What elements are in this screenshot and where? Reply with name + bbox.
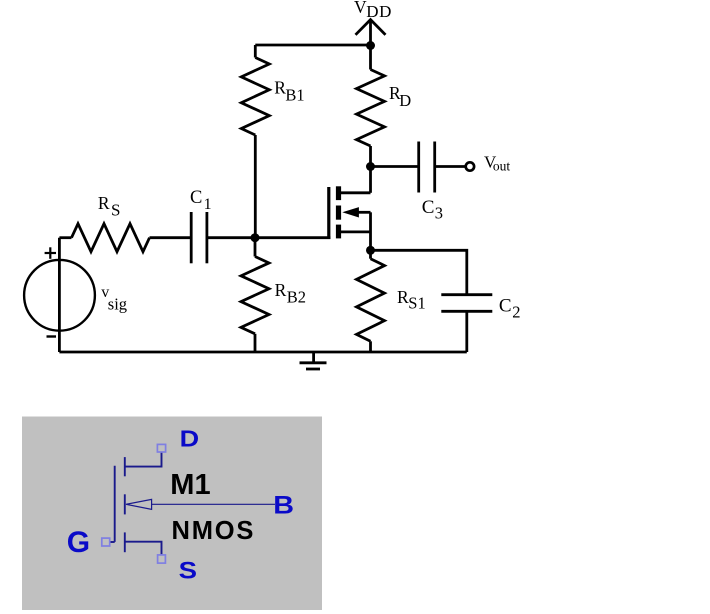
drain lead: [341, 191, 371, 194]
svg-text:NMOS: NMOS: [172, 517, 256, 545]
svg-text:S1: S1: [408, 294, 425, 313]
ground: [300, 352, 327, 369]
svg-text:C: C: [190, 188, 202, 208]
symbol M1 source lead: [125, 542, 162, 555]
svg-text:3: 3: [435, 204, 443, 223]
node gate junction dot: [251, 233, 260, 242]
channel bar dashes: [336, 186, 341, 200]
node source junction dot: [366, 246, 375, 255]
node drain junction dot: [366, 162, 375, 171]
symbol M1 channel drain segment: [124, 457, 126, 476]
symbol M1 gate lead: [110, 541, 115, 543]
resistor RS1: [357, 250, 385, 352]
svg-text:M1: M1: [170, 469, 210, 501]
wire body to B: [152, 503, 275, 505]
svg-text:R: R: [98, 193, 110, 213]
terminal S square: [158, 555, 166, 563]
svg-text:G: G: [67, 526, 90, 559]
svg-text:V: V: [354, 0, 367, 17]
resistor RB1: [241, 45, 269, 135]
symbol M1 gate bar: [114, 466, 116, 542]
resistor RS: [59, 224, 191, 252]
power VDD symbol: [356, 20, 386, 46]
svg-text:C: C: [422, 197, 435, 218]
symbol M1 channel source segment: [124, 532, 126, 552]
wire gate node to transistor gate: [207, 236, 331, 239]
wire RB1 bottom to gate node: [254, 135, 257, 238]
wire C2 bottom to rail: [465, 311, 468, 352]
capacitor C3: [419, 142, 435, 193]
symbol M1 drain lead: [125, 452, 162, 467]
label RB2: [275, 280, 306, 307]
svg-text:S: S: [111, 201, 120, 220]
svg-text:out: out: [493, 158, 511, 173]
body arrow: [342, 207, 359, 217]
source vsig circle: [24, 260, 95, 331]
label VDD: [354, 0, 392, 21]
terminal D square: [157, 444, 165, 452]
transistor Q1 NMOS: [329, 167, 371, 251]
wire top rail RB1 to VDD node: [255, 44, 370, 47]
source lead: [341, 230, 371, 233]
label RB1: [274, 77, 304, 104]
svg-text:DD: DD: [366, 2, 392, 21]
svg-text:D: D: [399, 91, 411, 110]
svg-text:R: R: [275, 280, 287, 300]
terminal G square: [102, 538, 110, 546]
gate bar: [327, 187, 330, 239]
label RS1: [397, 287, 426, 313]
svg-text:2: 2: [512, 302, 520, 321]
svg-text:S: S: [179, 558, 197, 584]
plus sign: [45, 247, 56, 258]
resistor RD: [357, 46, 385, 167]
symbol M1 body arrow: [126, 499, 152, 509]
label C1: [190, 188, 212, 213]
capacitor C1: [191, 212, 207, 263]
svg-text:sig: sig: [108, 295, 127, 314]
wire C3 to vout terminal: [435, 165, 466, 168]
label vsig: [101, 284, 127, 313]
symbol M1 channel body segment: [124, 494, 126, 514]
node VDD junction dot: [366, 41, 375, 50]
wire drain node to C3: [371, 165, 419, 168]
gray info box: [22, 417, 322, 611]
svg-text:B1: B1: [285, 86, 304, 105]
terminal vout open circle: [466, 162, 474, 170]
wire body down to source node: [369, 212, 372, 250]
svg-text:1: 1: [204, 196, 212, 213]
minus sign: [47, 335, 57, 337]
label C3: [422, 197, 443, 222]
svg-text:R: R: [397, 287, 409, 307]
capacitor C2: [441, 295, 492, 312]
svg-text:C: C: [499, 295, 512, 316]
svg-text:D: D: [180, 426, 200, 452]
wire source node right to C2 branch: [371, 250, 467, 294]
label RS: [98, 193, 121, 219]
svg-text:B2: B2: [287, 288, 306, 307]
label RD: [389, 83, 411, 110]
resistor RB2: [241, 238, 269, 352]
label C2: [499, 295, 521, 321]
wire vsig vertical: [58, 238, 61, 352]
wire bottom rail: [59, 351, 466, 354]
label vout: [484, 152, 510, 173]
svg-text:B: B: [273, 491, 294, 519]
wire drain node down to drain lead: [369, 167, 372, 193]
